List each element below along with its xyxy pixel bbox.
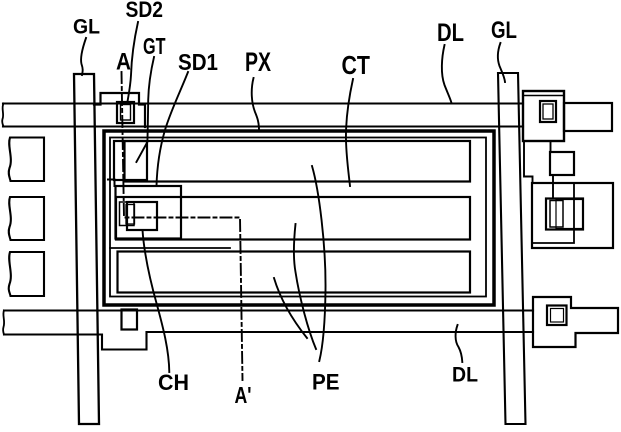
svg-text:GL: GL [73, 15, 100, 39]
extra conductor edge left of slit 3 [110, 247, 230, 249]
data line DL (top) top edge [3, 102, 523, 104]
svg-text:DL: DL [452, 364, 478, 387]
svg-text:CH: CH [158, 370, 189, 395]
svg-text:SD1: SD1 [178, 49, 218, 75]
neighbour pad (bottom right) contact square inner [551, 309, 564, 323]
data line DL (top) wavy left end cap [2, 104, 3, 127]
section line A to A' (dash-dot) [122, 72, 243, 380]
leader line PE second (from slit 2) [294, 224, 316, 349]
gate line GL (right vertical bar) [498, 73, 526, 424]
neighbour pad (top right) contact square [540, 101, 556, 122]
storage capacitor block (right) outer rectangle [532, 183, 613, 248]
neighbouring pixel slit 1 with break edge (left) [9, 138, 44, 182]
slit opening 2 in PX [116, 197, 470, 240]
neighbour pad (bottom right) cross outline [533, 297, 618, 347]
svg-text:A': A' [235, 382, 252, 408]
data line DL (bottom) top edge [4, 309, 533, 311]
source/drain SD1 region rectangle [116, 186, 182, 239]
leader line PE first (from slit 1) [312, 166, 326, 361]
svg-text:A: A [116, 49, 131, 76]
neighbour pad (top right) contact square inner [543, 104, 553, 119]
storage capacitor block partition lines [532, 183, 574, 243]
gate electrode GT square [114, 141, 147, 180]
svg-text:SD2: SD2 [126, 0, 164, 22]
data line DL (bottom) bottom edge with jut [4, 332, 533, 350]
gate metal ledge from GL bar to GT square [108, 180, 115, 187]
tab pad below PX bottom-left corner [122, 310, 138, 330]
neighbour pad (bottom right) contact square [547, 306, 567, 326]
leader line DL (bottom) [456, 325, 463, 362]
pixel electrode PX outer boundary [104, 131, 494, 305]
gate line GL (left vertical bar) [74, 74, 99, 424]
pixel electrode PX inner boundary [110, 138, 486, 297]
contact hole CH main square [127, 202, 157, 230]
neighbouring pixel slit 3 with break edge (left) [9, 252, 44, 296]
leader line GT with arrow stroke into square [136, 57, 154, 162]
middle step rectangle (right) [550, 152, 574, 175]
storage block nested wide thin rectangle [556, 200, 583, 229]
leader line PE third (from slit 3) [274, 278, 307, 338]
leader line GL (top right) [498, 43, 505, 82]
neighbouring pixel slit 2 with break edge (left) [9, 197, 44, 240]
data line arm to right edge (top) [564, 103, 612, 131]
slit opening 1 in PX [125, 141, 471, 182]
leader line SD2 [128, 22, 139, 102]
leader line PX [252, 78, 259, 129]
step connection from top-right pad down (left) [524, 141, 533, 183]
leader line GL (top left) [81, 38, 86, 75]
source/drain pad SD2 outer rectangle [117, 102, 134, 123]
slit opening 3 in PX [118, 252, 471, 293]
leader line CH [143, 230, 170, 372]
data line DL (top) bottom edge [3, 125, 523, 127]
svg-text:PX: PX [245, 47, 271, 77]
leader line DL (top) [442, 45, 452, 103]
svg-text:PE: PE [312, 370, 340, 395]
neighbour pad (top right) outer rectangle [523, 91, 564, 141]
data line DL (bottom) wavy left end cap [3, 311, 4, 335]
source/drain pad SD2 inner rectangle [121, 105, 131, 121]
connection from middle step rect to storage block [552, 175, 554, 199]
contact hole CH inner narrow rectangle [126, 205, 135, 225]
leader line CT [346, 79, 353, 186]
gate electrode GT step outline on top data line [94, 93, 145, 127]
svg-text:GL: GL [491, 17, 517, 44]
storage block nested square outer [546, 199, 583, 230]
svg-text:GT: GT [143, 33, 166, 59]
svg-text:CT: CT [342, 50, 371, 80]
storage block nested narrow rectangle [550, 201, 563, 228]
neighbour pad (top right) doubled top edge [523, 95, 564, 97]
svg-text:DL: DL [437, 19, 464, 47]
contact hole CH left small rectangle [120, 202, 135, 226]
leader line SD1 [157, 72, 189, 186]
step connection from top-right pad down (right) [550, 141, 552, 152]
